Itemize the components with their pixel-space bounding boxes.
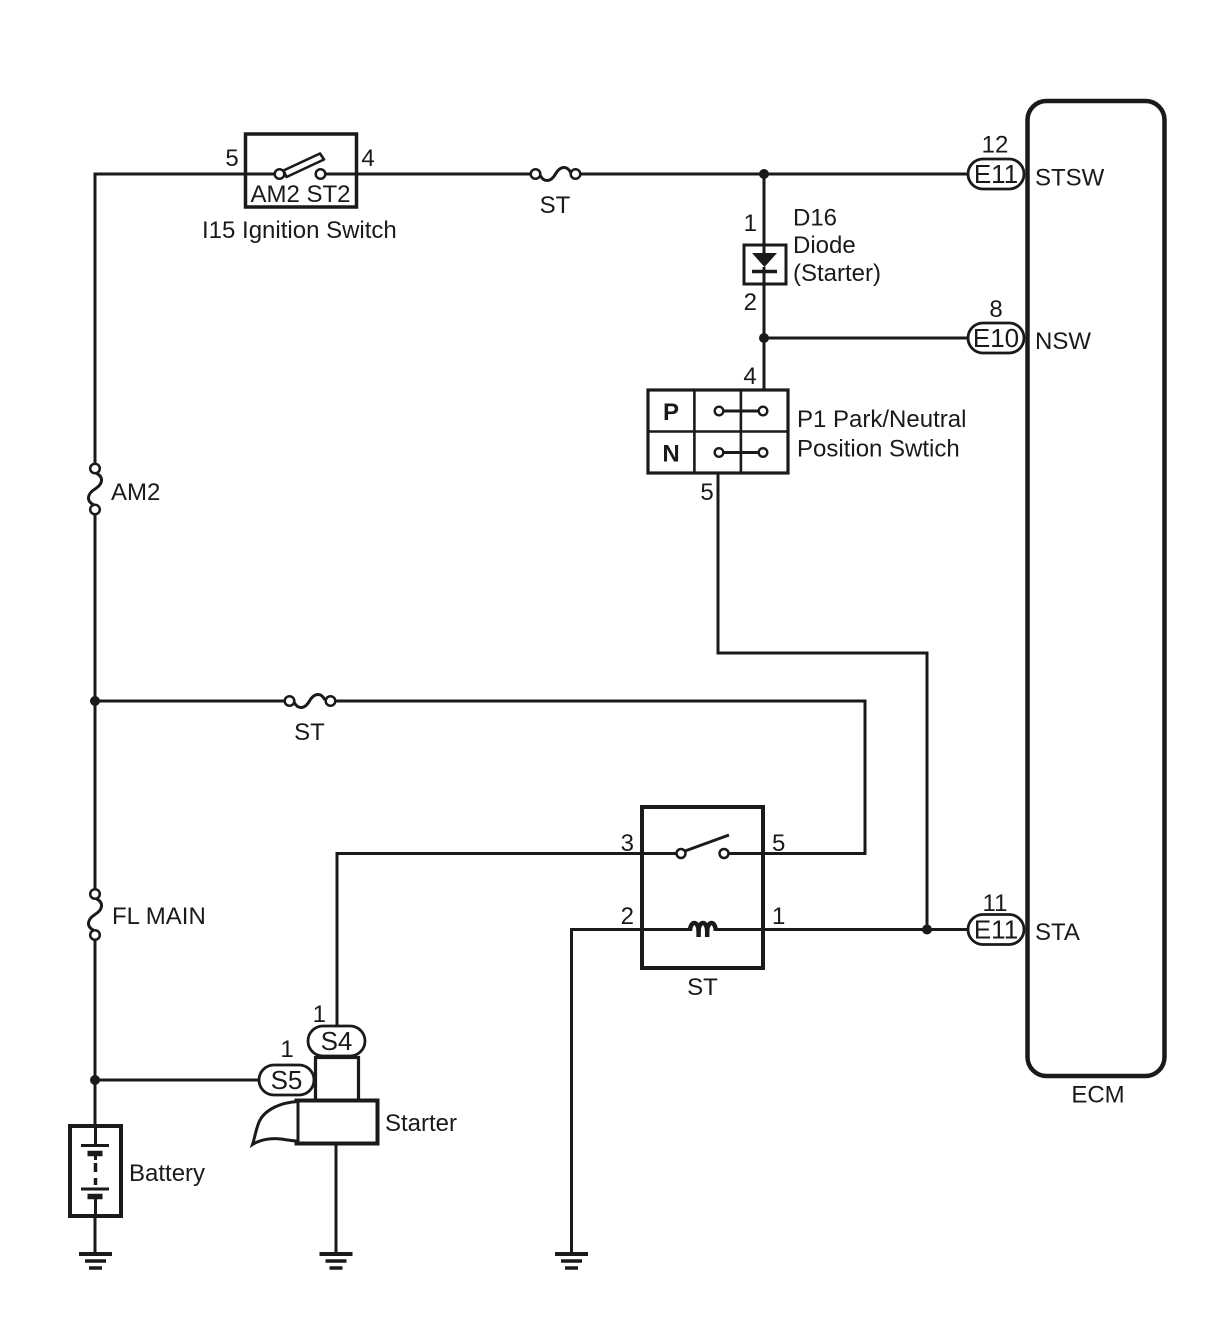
relay ST box (642, 807, 763, 968)
wire: diode branch vertical x=764 (763, 174, 766, 390)
diode D16 symbol (752, 253, 777, 267)
node: junction at NSW (764,338) (759, 333, 769, 343)
node: junction at diode top (764,174) (759, 169, 769, 179)
svg-text:STSW: STSW (1035, 165, 1105, 192)
svg-text:Battery: Battery (129, 1160, 205, 1187)
wire: relay pin 2 to ground (572, 930, 643, 1253)
wire: NSW net horizontal y=338 (764, 337, 968, 340)
svg-text:1: 1 (280, 1036, 293, 1063)
svg-text:Diode: Diode (793, 232, 856, 259)
svg-text:5: 5 (225, 145, 238, 172)
svg-text:3: 3 (621, 830, 634, 857)
ground (battery) (79, 1254, 112, 1268)
wire: relay pin 1 to STA pill (763, 928, 968, 931)
wire: starter to ground (335, 1143, 338, 1252)
svg-text:STA: STA (1035, 919, 1080, 946)
svg-text:ST: ST (294, 719, 325, 746)
node: junction STA net (927,929.5) (922, 925, 932, 935)
svg-text:AM2 ST2: AM2 ST2 (250, 181, 350, 208)
switch P1 park/neutral position switch box (648, 390, 788, 473)
wire: battery to ground (94, 1216, 97, 1252)
svg-text:P: P (663, 399, 679, 426)
svg-text:E11: E11 (974, 915, 1018, 945)
starter motor body (297, 1101, 378, 1144)
ground (starter) (320, 1254, 353, 1268)
svg-text:E10: E10 (973, 323, 1019, 353)
svg-text:ST: ST (687, 974, 718, 1001)
battery cells (81, 1126, 109, 1216)
ground (relay coil) (555, 1254, 588, 1268)
svg-text:ECM: ECM (1071, 1082, 1124, 1109)
svg-text:E11: E11 (974, 159, 1018, 189)
svg-text:8: 8 (989, 296, 1002, 323)
diode D16 box (744, 245, 786, 284)
wire: ST fuse net y=701 to relay pin 5 (95, 701, 865, 854)
svg-text:S4: S4 (321, 1026, 353, 1056)
svg-text:(Starter): (Starter) (793, 260, 881, 287)
svg-text:N: N (662, 441, 679, 468)
N row contact (715, 448, 768, 457)
svg-text:AM2: AM2 (111, 479, 160, 506)
switch I15 lever (284, 154, 325, 178)
starter solenoid box (316, 1058, 359, 1101)
fuse ST (middle) (285, 694, 336, 746)
svg-text:11: 11 (983, 890, 1008, 917)
svg-text:12: 12 (982, 132, 1009, 159)
fuse FL MAIN (vertical) (88, 889, 205, 940)
svg-text:P1 Park/Neutral: P1 Park/Neutral (797, 406, 966, 433)
svg-text:2: 2 (621, 903, 634, 930)
relay switch contacts (642, 852, 763, 855)
svg-text:1: 1 (744, 210, 757, 237)
battery box (70, 1126, 121, 1216)
node: junction left bus / ST net (95,701) (90, 696, 100, 706)
connector E11 (STA) pill (968, 915, 1024, 945)
connector E11 (STSW) pill (968, 159, 1024, 189)
switch I15 contacts (275, 169, 326, 179)
svg-text:1: 1 (772, 903, 785, 930)
connector S5 pill (259, 1065, 314, 1095)
relay switch lever (685, 835, 729, 851)
svg-text:5: 5 (700, 479, 713, 506)
svg-text:I15 Ignition Switch: I15 Ignition Switch (202, 217, 397, 244)
connector E10 (NSW) pill (968, 323, 1024, 353)
wire: top STSW net horizontal y=174 (95, 173, 968, 176)
wire: battery bus to S5 pill (95, 1079, 259, 1082)
wire: P/N pin5 to STA junction (718, 473, 927, 930)
switch I15 ignition switch box (246, 134, 357, 207)
svg-text:S5: S5 (271, 1065, 303, 1095)
svg-text:4: 4 (743, 363, 756, 390)
connector S4 pill (308, 1026, 365, 1056)
fuse ST (top) (531, 167, 581, 219)
svg-text:NSW: NSW (1035, 328, 1091, 355)
svg-text:5: 5 (772, 830, 785, 857)
svg-text:ST: ST (540, 192, 571, 219)
P row contact (715, 407, 768, 416)
ECM block (1028, 101, 1165, 1076)
svg-text:Position Swtich: Position Swtich (797, 436, 960, 463)
wire: left vertical bus x=95 (94, 173, 97, 1127)
fuse AM2 (vertical) (88, 464, 160, 515)
relay coil (642, 928, 763, 931)
svg-text:1: 1 (313, 1001, 326, 1028)
node: junction left bus / S5 wire (95,1080) (90, 1075, 100, 1085)
starter motor horn (253, 1102, 299, 1145)
svg-text:4: 4 (361, 145, 374, 172)
wire: relay pin 3 to S4 (337, 854, 642, 1027)
svg-text:Starter: Starter (385, 1110, 457, 1137)
svg-text:2: 2 (744, 289, 757, 316)
svg-text:D16: D16 (793, 205, 837, 232)
svg-text:FL MAIN: FL MAIN (112, 903, 206, 930)
